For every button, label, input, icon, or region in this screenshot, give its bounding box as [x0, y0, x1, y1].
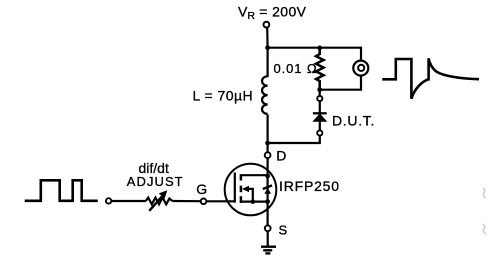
node junction top-left: [265, 45, 270, 50]
node body-source dot: [251, 199, 256, 204]
current probe inner circle: [358, 65, 364, 71]
diode D.U.T. cathode bar: [313, 112, 327, 114]
rheostat R2 arrow: [149, 195, 163, 211]
wire diode to DUT bottom terminal: [319, 121, 321, 131]
transistor Q1 channel segment bottom: [240, 196, 243, 203]
transistor Q1 channel segment top: [240, 174, 243, 180]
op-amp: none; transistor Q1 body circle: [225, 164, 277, 216]
body diode bar: [263, 185, 272, 189]
svg-text:ADJUST: ADJUST: [127, 174, 184, 189]
wire probe branch bottom: [320, 76, 361, 90]
svg-text:D.U.T.: D.U.T.: [332, 113, 375, 129]
svg-text:G: G: [196, 181, 207, 197]
wire input terminal to rheostat: [111, 200, 146, 202]
svg-text:0.01 Ω: 0.01 Ω: [274, 61, 318, 76]
inductor L1 coil: [262, 76, 268, 114]
terminal G: [201, 199, 207, 205]
faint edge mark lower: [483, 224, 486, 234]
wire inductor to D-junction: [267, 115, 269, 144]
input pulse waveform: [25, 180, 98, 201]
terminal S: [265, 225, 271, 231]
transistor Q1 channel segment middle: [240, 186, 243, 193]
wire top horizontal: [268, 47, 361, 49]
transistor Q1 gate bar: [234, 173, 236, 203]
node junction drain-top: [265, 141, 270, 146]
terminal DUT anode-top: [317, 96, 322, 101]
wire source connection inside Q1: [241, 201, 268, 203]
output waveform reverse recovery: [382, 58, 479, 99]
wire junction to inductor: [267, 48, 269, 77]
svg-text:IRFP250: IRFP250: [279, 178, 340, 194]
ground: [261, 247, 276, 254]
faint edge mark upper: [483, 188, 486, 198]
wire VR terminal to top junction: [266, 27, 269, 47]
wire drain connection inside Q1: [241, 174, 268, 176]
wire G terminal to gate: [206, 200, 235, 202]
wire rheostat to G terminal: [172, 200, 200, 202]
current probe outer circle: [353, 61, 368, 76]
terminal DUT bottom: [317, 130, 322, 135]
transistor Q1 body arrow: [242, 186, 249, 192]
node D terminal: [265, 152, 271, 158]
node junction resistor top: [317, 46, 322, 51]
wire DUT top terminal to diode: [319, 101, 321, 113]
resistor R1 0.01ohm: [316, 48, 324, 90]
svg-text:L = 70µH: L = 70µH: [193, 88, 254, 104]
body diode triangle: [264, 188, 271, 194]
svg-text:S: S: [279, 223, 288, 238]
wire node D to source terminal (drain-source line): [267, 158, 269, 226]
terminal VR: [264, 22, 270, 28]
wire junction to node D: [267, 143, 269, 152]
terminal input: [106, 198, 111, 203]
wire source terminal to ground: [267, 231, 269, 246]
wire resistor junction to DUT top terminal: [319, 90, 321, 96]
svg-text:D: D: [276, 148, 286, 164]
diode D.U.T. triangle: [313, 114, 326, 121]
wire DUT bottom to drain junction: [268, 136, 320, 144]
node source dot: [265, 199, 270, 204]
rheostat R2 dif/dt adjust zigzag: [146, 198, 173, 205]
wire probe branch top: [360, 47, 362, 61]
node drain dot: [265, 174, 270, 179]
node junction resistor bottom: [317, 87, 322, 92]
